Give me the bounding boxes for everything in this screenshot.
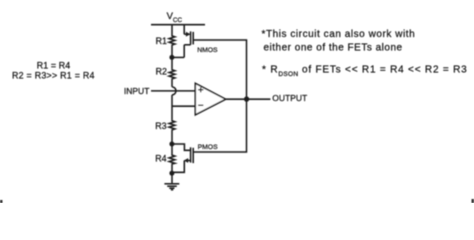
corner mark bottom-left: [0, 200, 3, 203]
svg-text:*: *: [262, 64, 266, 75]
wire R4 to ground: [171, 164, 173, 183]
svg-text:NMOS: NMOS: [197, 47, 218, 54]
resistor R2: [169, 69, 175, 79]
wire R1 to R2: [171, 45, 173, 69]
node B (R3/R4 junction): [169, 142, 174, 147]
wire R3 to R4: [171, 130, 173, 154]
wire INPUT to op-amp +: [151, 90, 195, 92]
corner mark bottom-right: [472, 199, 474, 203]
wire R2 to hop: [171, 79, 173, 87]
svg-text:PMOS: PMOS: [198, 144, 218, 151]
svg-text:INPUT: INPUT: [124, 86, 149, 96]
wire PMOS gate to output node: [193, 99, 246, 152]
svg-text:RDSON of FETs << R1 = R4 << R2: RDSON of FETs << R1 = R4 << R2 = R3: [270, 64, 467, 78]
svg-text:R1 = R4: R1 = R4: [37, 60, 71, 70]
svg-text:CC: CC: [173, 17, 183, 24]
power rail VCC: [151, 24, 205, 26]
svg-text:OUTPUT: OUTPUT: [272, 93, 307, 103]
svg-text:*This circuit can also work wi: *This circuit can also work with: [262, 29, 416, 40]
resistor R3: [169, 120, 175, 130]
node C (bottom junction): [169, 171, 174, 176]
wire rail to R1: [171, 25, 173, 35]
wire hop over input wire: [172, 87, 176, 95]
svg-text:R2 = R3>> R1 = R4: R2 = R3>> R1 = R4: [12, 70, 95, 80]
svg-text:R4: R4: [155, 154, 166, 164]
wire divider to op-amp -: [172, 105, 195, 107]
wire op-amp output to OUTPUT: [226, 98, 271, 100]
ground: [164, 183, 179, 185]
op-amp U1: [195, 83, 225, 115]
resistor R4: [169, 155, 175, 165]
svg-text:either one of the FETs alone: either one of the FETs alone: [264, 42, 403, 53]
svg-text:R3: R3: [155, 121, 166, 131]
wire hop to R3: [171, 95, 173, 120]
resistor R1: [169, 35, 175, 45]
node A (R1/R2 junction): [169, 55, 174, 60]
transistor Q1 NMOS: [172, 25, 193, 58]
node OUT: [244, 96, 249, 101]
svg-text:R1: R1: [156, 36, 167, 46]
transistor Q2 PMOS: [172, 144, 193, 172]
wire NMOS gate to output node: [193, 40, 246, 99]
svg-text:R2: R2: [156, 67, 167, 77]
